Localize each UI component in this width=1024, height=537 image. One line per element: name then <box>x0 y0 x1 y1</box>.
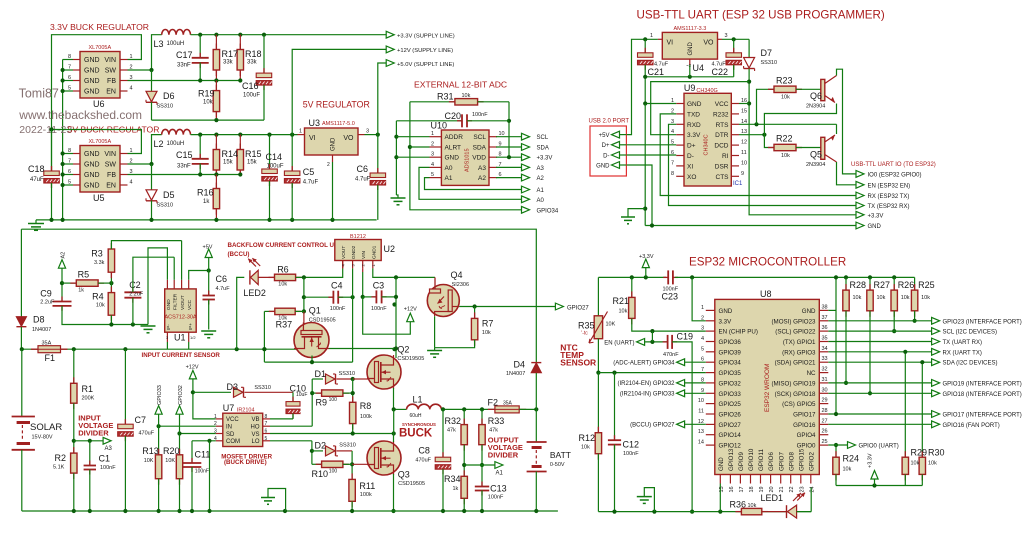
svg-text:TX (ESP32 RX): TX (ESP32 RX) <box>868 204 910 210</box>
svg-text:U8: U8 <box>760 289 772 299</box>
svg-text:IP+: IP+ <box>188 323 193 330</box>
svg-text:2: 2 <box>431 142 434 148</box>
svg-text:GND: GND <box>84 57 100 64</box>
svg-text:100nF: 100nF <box>100 465 116 471</box>
svg-text:A3: A3 <box>105 446 113 452</box>
svg-text:4.7uF: 4.7uF <box>303 180 319 186</box>
svg-text:Q3: Q3 <box>398 470 410 480</box>
svg-text:D+: D+ <box>687 143 696 150</box>
svg-text:+3.3V: +3.3V <box>537 156 553 162</box>
svg-text:C7: C7 <box>135 415 147 425</box>
svg-text:47k: 47k <box>447 428 456 434</box>
svg-text:19: 19 <box>759 486 765 492</box>
svg-text:2.2uF: 2.2uF <box>40 300 55 306</box>
svg-text:GND: GND <box>84 151 100 158</box>
svg-text:GND: GND <box>331 137 337 151</box>
svg-text:GPIO26: GPIO26 <box>719 412 742 419</box>
svg-text:U7: U7 <box>223 403 235 413</box>
svg-text:EXTERNAL 12-BIT ADC: EXTERNAL 12-BIT ADC <box>414 80 507 90</box>
svg-text:31: 31 <box>822 377 828 383</box>
svg-text:R12: R12 <box>579 433 596 443</box>
svg-text:USB-TTL UART IO (TO ESP32): USB-TTL UART IO (TO ESP32) <box>851 162 936 168</box>
svg-text:U3: U3 <box>309 118 321 128</box>
svg-text:8: 8 <box>671 171 674 177</box>
svg-text:VCC: VCC <box>715 101 729 108</box>
svg-text:SI2306: SI2306 <box>452 282 469 288</box>
svg-text:(IR2104-IN) GPIO33: (IR2104-IN) GPIO33 <box>620 392 675 398</box>
svg-text:R18: R18 <box>245 49 262 59</box>
svg-text:29: 29 <box>822 398 828 404</box>
svg-text:VI: VI <box>309 135 316 142</box>
svg-text:R9: R9 <box>316 398 328 408</box>
svg-text:SS310: SS310 <box>339 443 356 449</box>
svg-text:17: 17 <box>739 486 745 492</box>
svg-text:U5: U5 <box>93 193 105 203</box>
svg-text:ADS1015: ADS1015 <box>465 148 471 172</box>
svg-text:100nF: 100nF <box>330 306 346 312</box>
svg-text:GPIO23 (INTERFACE PORT): GPIO23 (INTERFACE PORT) <box>943 319 1022 325</box>
svg-text:Q5: Q5 <box>810 150 822 160</box>
svg-text:GND: GND <box>166 299 172 310</box>
svg-text:C5: C5 <box>303 167 315 177</box>
svg-text:RTS: RTS <box>716 122 730 129</box>
svg-text:SW: SW <box>105 162 117 169</box>
svg-text:4.7uF: 4.7uF <box>216 286 231 292</box>
svg-text:10k: 10k <box>581 445 590 451</box>
svg-text:GND: GND <box>719 308 733 315</box>
svg-text:+3.3V (SUPPLY LINE): +3.3V (SUPPLY LINE) <box>397 34 455 40</box>
svg-text:RX (UART TX): RX (UART TX) <box>943 350 982 356</box>
svg-text:2.2uF: 2.2uF <box>129 292 144 298</box>
svg-text:SDA (I2C DEVICES): SDA (I2C DEVICES) <box>943 361 998 367</box>
svg-text:10k: 10k <box>911 461 920 467</box>
svg-text:LED1: LED1 <box>761 493 784 503</box>
svg-text:47uF: 47uF <box>30 177 44 183</box>
svg-text:1/2: 1/2 <box>190 335 196 340</box>
svg-text:A1: A1 <box>445 175 453 182</box>
svg-text:U4: U4 <box>693 63 705 73</box>
svg-text:60uH: 60uH <box>410 413 422 419</box>
svg-text:100uF: 100uF <box>267 164 284 170</box>
svg-text:GPIO15: GPIO15 <box>798 448 805 471</box>
svg-text:GPIO0 (UART): GPIO0 (UART) <box>859 444 899 450</box>
svg-text:IC1: IC1 <box>733 181 743 187</box>
svg-text:GND: GND <box>802 308 816 315</box>
svg-text:GPIO12: GPIO12 <box>719 443 742 450</box>
svg-text:R36: R36 <box>730 500 747 510</box>
svg-text:U9: U9 <box>684 83 696 93</box>
svg-text:4: 4 <box>671 129 674 135</box>
svg-text:VO: VO <box>343 135 354 142</box>
svg-text:GPIO18 (INTERFACE PORT): GPIO18 (INTERFACE PORT) <box>943 392 1022 398</box>
svg-text:Q4: Q4 <box>451 270 463 280</box>
svg-text:U2: U2 <box>384 244 396 254</box>
svg-text:C18: C18 <box>28 164 45 174</box>
svg-text:GPIO32: GPIO32 <box>719 380 742 387</box>
svg-text:R21: R21 <box>613 296 630 306</box>
svg-text:R1: R1 <box>82 384 94 394</box>
svg-text:R20: R20 <box>163 446 180 456</box>
svg-text:SENSOR: SENSOR <box>560 358 596 368</box>
svg-text:100nF: 100nF <box>472 112 488 118</box>
svg-text:A2: A2 <box>61 252 67 259</box>
svg-text:100: 100 <box>329 397 338 403</box>
svg-text:5V REGULATOR: 5V REGULATOR <box>303 100 370 110</box>
svg-text:R32: R32 <box>445 416 462 426</box>
svg-text:C1: C1 <box>99 454 111 464</box>
svg-text:GPIO8: GPIO8 <box>788 452 795 471</box>
svg-text:C14: C14 <box>266 152 283 162</box>
svg-text:A1: A1 <box>537 188 545 194</box>
svg-text:TX (UART RX): TX (UART RX) <box>943 340 982 346</box>
svg-text:14: 14 <box>698 440 704 446</box>
svg-text:GPIO25: GPIO25 <box>719 401 742 408</box>
svg-text:SS310: SS310 <box>157 104 174 110</box>
svg-text:AMS1117-3.3: AMS1117-3.3 <box>674 26 707 32</box>
svg-text:GND: GND <box>84 78 100 85</box>
svg-text:R11: R11 <box>359 481 375 491</box>
svg-text:IN: IN <box>226 425 232 431</box>
svg-text:10k: 10k <box>203 100 214 106</box>
svg-text:C8: C8 <box>418 446 430 456</box>
svg-text:BACKFLOW CURRENT CONTROL UNIT: BACKFLOW CURRENT CONTROL UNIT <box>228 242 345 249</box>
svg-text:R26: R26 <box>898 280 915 290</box>
svg-text:35A: 35A <box>503 401 513 407</box>
svg-text:(SCK) GPIO18: (SCK) GPIO18 <box>775 391 816 398</box>
svg-text:2: 2 <box>701 315 704 321</box>
svg-text:~2: ~2 <box>686 63 692 68</box>
svg-text:RXD: RXD <box>687 122 701 129</box>
svg-text:SW: SW <box>105 68 117 75</box>
svg-text:4: 4 <box>130 180 133 186</box>
svg-text:R14: R14 <box>222 149 239 159</box>
svg-text:R3: R3 <box>91 249 103 259</box>
svg-text:470uF: 470uF <box>139 431 155 437</box>
svg-text:Q2: Q2 <box>397 345 409 355</box>
svg-text:C3: C3 <box>373 281 385 291</box>
svg-text:GND: GND <box>688 42 694 56</box>
svg-text:C19: C19 <box>677 332 694 342</box>
svg-text:INPUT CURRENT SENSOR: INPUT CURRENT SENSOR <box>142 352 221 359</box>
svg-text:SS310: SS310 <box>339 371 356 377</box>
svg-text:D+: D+ <box>602 143 610 149</box>
svg-text:470uF: 470uF <box>415 458 431 464</box>
svg-text:GPIO2: GPIO2 <box>808 452 815 471</box>
svg-text:1: 1 <box>299 129 302 135</box>
svg-text:GPIO33: GPIO33 <box>157 385 163 405</box>
svg-text:+5V: +5V <box>599 133 610 139</box>
svg-text:DCD: DCD <box>714 143 728 150</box>
svg-text:10k: 10k <box>748 503 757 509</box>
svg-text:4: 4 <box>431 162 434 168</box>
svg-text:33: 33 <box>822 356 828 362</box>
svg-text:1: 1 <box>650 33 653 39</box>
svg-text:3: 3 <box>431 152 434 158</box>
svg-text:COM: COM <box>226 439 240 445</box>
svg-text:C15: C15 <box>176 150 193 160</box>
svg-text:SCL: SCL <box>473 134 486 141</box>
svg-text:F2: F2 <box>488 398 499 408</box>
svg-text:23: 23 <box>799 486 805 492</box>
svg-text:CSD19505: CSD19505 <box>398 481 425 487</box>
svg-text:10: 10 <box>741 160 747 166</box>
svg-text:CH340C: CH340C <box>704 134 710 155</box>
svg-text:D3: D3 <box>227 382 239 392</box>
svg-text:100nF: 100nF <box>488 495 504 501</box>
svg-text:GPIO4: GPIO4 <box>797 432 816 439</box>
svg-text:GPIO13: GPIO13 <box>728 448 735 471</box>
svg-text:8: 8 <box>265 414 268 420</box>
svg-text:GPIO19 (INTERFACE PORT): GPIO19 (INTERFACE PORT) <box>943 381 1022 387</box>
svg-text:A3: A3 <box>478 165 486 172</box>
svg-text:XL7005A: XL7005A <box>89 139 112 145</box>
svg-text:34: 34 <box>822 346 828 352</box>
svg-text:3.3V: 3.3V <box>687 132 701 139</box>
svg-text:D-: D- <box>603 153 609 159</box>
svg-text:EN (UART): EN (UART) <box>604 340 634 346</box>
svg-text:USB-TTL UART (ESP 32 USB PROGR: USB-TTL UART (ESP 32 USB PROGRAMMER) <box>637 9 885 22</box>
svg-text:35A: 35A <box>42 341 52 347</box>
svg-text:28: 28 <box>822 408 828 414</box>
svg-text:GPIO34: GPIO34 <box>719 360 742 367</box>
svg-text:+3.3V: +3.3V <box>868 213 884 219</box>
svg-text:15: 15 <box>741 108 747 114</box>
svg-text:R24: R24 <box>843 454 860 464</box>
svg-text:(TX) GPIO1: (TX) GPIO1 <box>783 339 816 346</box>
svg-text:22: 22 <box>789 486 795 492</box>
svg-text:D6: D6 <box>163 91 175 101</box>
svg-text:GPIO36: GPIO36 <box>719 339 742 346</box>
svg-text:XI: XI <box>687 163 693 170</box>
svg-text:6: 6 <box>265 429 268 435</box>
svg-text:(BUCK DRIVE): (BUCK DRIVE) <box>224 459 267 466</box>
svg-text:DIVIDER: DIVIDER <box>488 451 519 460</box>
svg-text:SYNCHRONOUS: SYNCHRONOUS <box>402 422 436 427</box>
svg-text:13: 13 <box>698 429 704 435</box>
svg-text:GPIO17 (INTERFACE PORT): GPIO17 (INTERFACE PORT) <box>943 413 1022 419</box>
svg-text:IR2104: IR2104 <box>237 408 255 414</box>
svg-text:GND: GND <box>84 89 100 96</box>
svg-text:SS310: SS310 <box>157 203 174 209</box>
svg-text:12: 12 <box>741 140 747 146</box>
svg-text:R28: R28 <box>850 280 867 290</box>
svg-text:USB 2.0 PORT: USB 2.0 PORT <box>589 119 630 125</box>
svg-text:A0: A0 <box>537 198 545 204</box>
svg-text:7: 7 <box>671 160 674 166</box>
svg-text:SS310: SS310 <box>254 385 271 391</box>
svg-text:15k: 15k <box>247 160 258 166</box>
svg-text:SCL: SCL <box>537 135 549 141</box>
svg-text:C4: C4 <box>331 281 343 291</box>
svg-text:GPIO16 (FAN PORT): GPIO16 (FAN PORT) <box>943 423 1000 429</box>
svg-text:10k: 10k <box>462 93 471 99</box>
svg-text:ACS712-30A: ACS712-30A <box>165 315 197 321</box>
svg-text:FB: FB <box>107 78 116 85</box>
svg-text:1k: 1k <box>203 199 210 205</box>
svg-text:GND: GND <box>868 224 882 230</box>
svg-text:470nF: 470nF <box>663 352 679 358</box>
svg-text:100uF: 100uF <box>243 93 260 99</box>
svg-text:U1: U1 <box>174 333 186 343</box>
svg-text:R6: R6 <box>277 265 289 275</box>
svg-text:R33: R33 <box>488 416 505 426</box>
svg-text:10: 10 <box>698 398 704 404</box>
svg-text:32: 32 <box>822 367 828 373</box>
svg-text:R29: R29 <box>911 448 928 458</box>
svg-text:R10: R10 <box>312 469 329 479</box>
svg-text:25: 25 <box>822 439 828 445</box>
svg-text:+12V: +12V <box>186 365 199 371</box>
svg-text:5: 5 <box>431 172 434 178</box>
svg-text:4: 4 <box>701 336 704 342</box>
svg-text:VIN: VIN <box>104 57 116 64</box>
svg-text:C2: C2 <box>129 280 141 290</box>
svg-text:LO: LO <box>251 439 259 445</box>
svg-text:20: 20 <box>769 486 775 492</box>
svg-text:GPIO35: GPIO35 <box>719 370 742 377</box>
svg-text:D4: D4 <box>514 360 526 370</box>
svg-text:GND: GND <box>84 172 100 179</box>
svg-text:(CS) GPIO5: (CS) GPIO5 <box>782 401 816 408</box>
svg-text:GND2: GND2 <box>351 245 357 259</box>
svg-text:R19: R19 <box>198 89 215 99</box>
svg-text:VIOUT: VIOUT <box>180 295 186 310</box>
svg-text:CSD19505: CSD19505 <box>397 356 424 362</box>
svg-text:(MISO) GPIO19: (MISO) GPIO19 <box>771 380 816 387</box>
svg-text:R2: R2 <box>55 453 67 463</box>
svg-text:SOLAR: SOLAR <box>30 422 62 433</box>
svg-text:(BCCU): (BCCU) <box>228 251 250 258</box>
svg-text:+3.3V: +3.3V <box>639 254 654 260</box>
svg-text:100uH: 100uH <box>167 41 185 47</box>
svg-text:10k: 10k <box>901 295 910 301</box>
svg-text:+5V: +5V <box>203 245 213 251</box>
svg-text:RI: RI <box>722 153 729 160</box>
svg-text:10k: 10k <box>843 467 852 473</box>
svg-text:'-tc: '-tc <box>581 331 588 337</box>
svg-text:CSD19505: CSD19505 <box>309 318 336 324</box>
svg-text:LED2: LED2 <box>243 288 266 298</box>
svg-text:GPIO34: GPIO34 <box>537 208 559 214</box>
svg-text:R31: R31 <box>437 92 454 102</box>
svg-text:A1: A1 <box>496 471 504 477</box>
svg-text:AMS1117-5.0: AMS1117-5.0 <box>322 121 355 127</box>
svg-text:11: 11 <box>741 150 747 156</box>
svg-text:NC: NC <box>807 370 816 377</box>
svg-text:100nF: 100nF <box>371 306 387 312</box>
svg-text:FILTER: FILTER <box>173 293 179 310</box>
svg-text:RX (ESP32 TX): RX (ESP32 TX) <box>868 194 910 200</box>
svg-text:ESP32 MICROCONTROLLER: ESP32 MICROCONTROLLER <box>689 256 846 269</box>
svg-text:100k: 100k <box>360 414 372 420</box>
svg-text:VS: VS <box>251 432 259 438</box>
svg-text:C6: C6 <box>357 164 369 174</box>
svg-text:3.3V BUCK REGULATOR: 3.3V BUCK REGULATOR <box>50 22 149 32</box>
svg-text:(SDA) GPIO21: (SDA) GPIO21 <box>775 360 816 367</box>
svg-text:24: 24 <box>809 486 815 492</box>
svg-text:10k: 10k <box>619 309 628 315</box>
svg-text:IO0 (ESP32 GPIO0): IO0 (ESP32 GPIO0) <box>868 172 922 178</box>
svg-text:D5: D5 <box>163 190 175 200</box>
svg-text:+3.3V: +3.3V <box>868 453 874 468</box>
svg-text:16: 16 <box>729 486 735 492</box>
svg-text:BATT: BATT <box>550 450 571 460</box>
svg-text:33nF: 33nF <box>177 164 191 170</box>
svg-text:R34: R34 <box>444 474 461 484</box>
svg-text:SCL (I2C DEVICES): SCL (I2C DEVICES) <box>943 330 997 336</box>
svg-text:EN (CHIP PU): EN (CHIP PU) <box>719 329 758 336</box>
svg-text:10K: 10K <box>144 458 154 464</box>
svg-text:C20: C20 <box>445 111 462 121</box>
svg-text:7: 7 <box>701 367 704 373</box>
svg-text:GND: GND <box>687 101 702 108</box>
svg-text:D2: D2 <box>315 441 327 451</box>
svg-text:0-50V: 0-50V <box>550 462 565 468</box>
svg-text:11: 11 <box>698 409 704 415</box>
svg-text:36: 36 <box>822 325 828 331</box>
svg-text:GPIO17: GPIO17 <box>793 412 816 419</box>
svg-text:100uH: 100uH <box>167 141 185 147</box>
svg-text:L3: L3 <box>154 39 164 49</box>
svg-text:ALRT: ALRT <box>445 145 462 152</box>
svg-text:U10: U10 <box>431 121 448 131</box>
svg-text:10k: 10k <box>928 461 937 467</box>
svg-text:R7: R7 <box>482 319 494 329</box>
svg-text:GPIO6: GPIO6 <box>768 452 775 471</box>
svg-text:+12V (SUPPLY LINE): +12V (SUPPLY LINE) <box>397 48 453 54</box>
svg-text:3: 3 <box>725 33 728 39</box>
svg-text:ESP32 WROOM: ESP32 WROOM <box>764 364 771 412</box>
svg-text:R16: R16 <box>197 188 214 198</box>
svg-text:D7: D7 <box>761 48 773 58</box>
svg-text:GPIO10: GPIO10 <box>748 448 755 471</box>
svg-text:C16: C16 <box>242 81 259 91</box>
svg-text:GND: GND <box>596 163 610 169</box>
svg-text:5: 5 <box>701 346 704 352</box>
svg-text:GPIO33: GPIO33 <box>719 391 742 398</box>
svg-text:GPIO32: GPIO32 <box>178 385 184 405</box>
svg-text:3: 3 <box>701 326 704 332</box>
svg-text:10k: 10k <box>96 303 105 309</box>
svg-text:33nF: 33nF <box>177 63 191 69</box>
svg-text:R22: R22 <box>776 134 793 144</box>
svg-text:XO: XO <box>687 174 696 181</box>
svg-text:GND: GND <box>84 162 100 169</box>
svg-text:R35: R35 <box>578 321 595 331</box>
svg-text:38: 38 <box>822 304 828 310</box>
svg-text:F1: F1 <box>45 353 56 363</box>
svg-text:200K: 200K <box>82 396 95 402</box>
svg-text:100: 100 <box>329 469 338 475</box>
svg-text:R232: R232 <box>713 111 729 118</box>
svg-text:R13: R13 <box>142 446 159 456</box>
svg-text:2N3904: 2N3904 <box>806 104 825 110</box>
svg-text:C12: C12 <box>623 440 640 450</box>
svg-text:3.3V: 3.3V <box>719 318 733 325</box>
svg-text:GPIO7: GPIO7 <box>778 452 785 471</box>
svg-text:(BCCU) GPIO27: (BCCU) GPIO27 <box>630 423 675 429</box>
svg-text:GND: GND <box>84 183 100 190</box>
svg-text:D8: D8 <box>33 315 45 325</box>
svg-text:C17: C17 <box>176 50 193 60</box>
svg-text:SDA: SDA <box>537 146 549 152</box>
svg-text:C22: C22 <box>712 67 729 77</box>
svg-text:10k: 10k <box>853 295 862 301</box>
svg-text:+5.0V (SUPPLT LINE): +5.0V (SUPPLT LINE) <box>397 62 454 68</box>
svg-text:C6: C6 <box>216 274 228 284</box>
svg-text:1N4007: 1N4007 <box>506 371 525 377</box>
svg-text:BUCK: BUCK <box>399 428 433 440</box>
